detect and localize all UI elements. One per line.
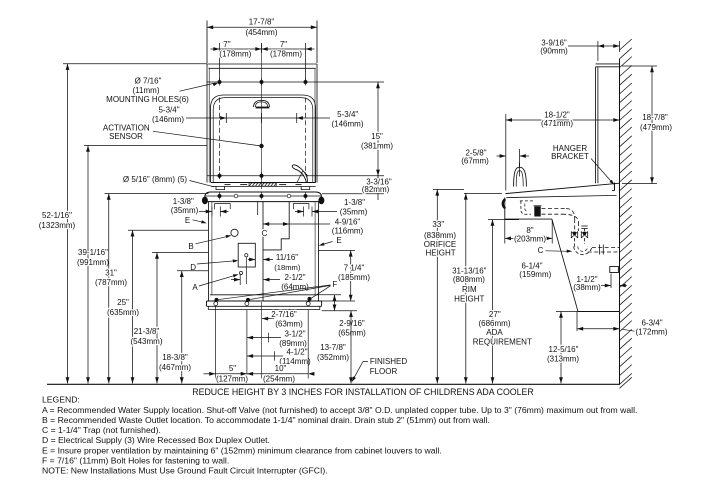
dim 1-3/8in (35mm) left	[211, 207, 213, 217]
svg-text:(381mm): (381mm)	[361, 141, 393, 150]
svg-text:E = Insure proper ventilation: E = Insure proper ventilation by maintai…	[42, 445, 442, 455]
front panel centerline	[261, 43, 263, 189]
basin end clips	[216, 186, 225, 189]
svg-text:(454mm): (454mm)	[245, 28, 277, 37]
svg-text:(18mm): (18mm)	[274, 263, 301, 272]
svg-text:(146mm): (146mm)	[152, 115, 184, 124]
svg-text:(35mm): (35mm)	[171, 206, 199, 215]
bolt holes F in flange	[214, 302, 218, 306]
svg-text:C = 1-1/4" Trap (not furnished: C = 1-1/4" Trap (not furnished).	[42, 425, 161, 435]
svg-text:(35mm): (35mm)	[340, 207, 368, 216]
svg-text:A = Recommended Water Supply l: A = Recommended Water Supply location. S…	[42, 405, 637, 415]
lower mounting hole row on shroud	[205, 195, 321, 197]
svg-text:18-7/8": 18-7/8"	[642, 113, 668, 122]
mid mounting hole row	[219, 172, 221, 179]
svg-text:(352mm): (352mm)	[317, 353, 349, 362]
basin grate band	[211, 182, 316, 184]
dim 18-7/8in (479mm)	[622, 65, 657, 67]
cabinet bottom flange	[207, 300, 322, 302]
svg-text:E: E	[336, 236, 341, 245]
svg-text:(838mm): (838mm)	[424, 231, 456, 240]
dim 5-3/4in (146mm) both sides of center	[186, 117, 297, 119]
svg-text:(471mm): (471mm)	[541, 119, 573, 128]
wall line	[619, 59, 621, 384]
dim 18-3/8" (467mm) vertical	[177, 270, 209, 272]
cabinet top shroud	[205, 192, 322, 202]
svg-text:A: A	[192, 283, 198, 292]
side view slanted lower front	[552, 219, 578, 311]
svg-text:ACTIVATION: ACTIVATION	[103, 123, 150, 132]
svg-text:Ø 5/16" (8mm) (5): Ø 5/16" (8mm) (5)	[123, 175, 188, 184]
svg-text:(467mm): (467mm)	[159, 363, 191, 372]
leader from mounting holes label to top-left hole	[180, 83, 216, 91]
svg-text:C: C	[538, 246, 544, 255]
cabinet body sides	[208, 202, 210, 301]
dim 15in (381mm) right side	[377, 82, 379, 176]
svg-text:(203mm): (203mm)	[514, 234, 546, 243]
svg-text:(127mm): (127mm)	[216, 375, 248, 384]
svg-text:B = Recommended Waste Outlet l: B = Recommended Waste Outlet location. T…	[42, 415, 490, 425]
bolt hole extension lines down to 5in/10in dims	[214, 307, 216, 379]
svg-text:FINISHED: FINISHED	[370, 357, 408, 366]
svg-text:F: F	[332, 280, 337, 289]
side view deck top slant	[506, 183, 620, 193]
shroud hole circles	[234, 194, 238, 198]
stepped interior panel line	[263, 202, 289, 250]
svg-text:15": 15"	[371, 132, 383, 141]
svg-text:3-1/2": 3-1/2"	[284, 330, 305, 339]
right bumper	[318, 197, 324, 205]
svg-text:(82mm): (82mm)	[362, 185, 390, 194]
bubbler side view	[514, 167, 527, 186]
dim 5in (127mm) and 10in (254mm) row	[204, 373, 216, 375]
dim 13-7/8in (352mm)	[350, 311, 352, 384]
svg-text:ORIFICE: ORIFICE	[424, 240, 456, 249]
dim 8in (203mm)	[504, 219, 506, 243]
svg-text:2-9/16": 2-9/16"	[339, 319, 365, 328]
dim 1-1/2in (38mm)	[610, 274, 612, 289]
dim 7in (178mm) left and right lines	[219, 43, 221, 82]
label D leader	[197, 261, 237, 264]
svg-text:(178mm): (178mm)	[270, 50, 302, 59]
svg-text:(313mm): (313mm)	[547, 355, 579, 364]
svg-text:7 1/4": 7 1/4"	[344, 264, 365, 273]
svg-text:6-3/4": 6-3/4"	[641, 319, 662, 328]
grate recess rounded rectangle inner	[213, 98, 313, 183]
electrical box D dashed rectangle	[238, 243, 255, 267]
svg-text:(991mm): (991mm)	[77, 258, 109, 267]
left bumper	[202, 197, 208, 205]
side view front face	[504, 198, 506, 220]
svg-text:2-7/16": 2-7/16"	[271, 310, 297, 319]
side view bottom line	[578, 311, 620, 313]
bubbler dome front view	[254, 100, 270, 107]
svg-text:13-7/8": 13-7/8"	[320, 343, 346, 352]
dim 3-3/16in (82mm)	[207, 175, 384, 177]
svg-text:18-3/8": 18-3/8"	[162, 353, 188, 362]
svg-text:(146mm): (146mm)	[331, 119, 363, 128]
svg-text:RIM: RIM	[462, 285, 477, 294]
svg-text:Ø 7/16": Ø 7/16"	[135, 77, 162, 86]
svg-text:REQUIREMENT: REQUIREMENT	[473, 337, 532, 346]
dim 2-1/2in (64mm)	[239, 274, 241, 286]
dim 2-9/16in (65mm)	[319, 294, 342, 296]
dim 18-1/2in (471mm)	[506, 119, 620, 121]
drain fitting B side view	[535, 207, 540, 211]
svg-text:HEIGHT: HEIGHT	[425, 249, 455, 258]
svg-text:(65mm): (65mm)	[338, 329, 366, 338]
hanger bracket at wall	[614, 183, 616, 191]
svg-text:E: E	[185, 216, 190, 225]
svg-text:21-3/8": 21-3/8"	[134, 327, 160, 336]
svg-text:ADA: ADA	[486, 328, 503, 337]
dashed mounting-hole centerlines in recess	[219, 98, 221, 182]
svg-text:2-1/2": 2-1/2"	[284, 273, 305, 282]
svg-text:MOUNTING HOLES(6): MOUNTING HOLES(6)	[106, 95, 189, 104]
floor line	[47, 383, 620, 385]
basin band slot marks	[240, 184, 247, 186]
bubbler push-bar flag front view	[292, 165, 307, 183]
wall hatching	[620, 39, 632, 50]
label B leader	[196, 236, 231, 244]
basin grate hatch marks center	[249, 183, 252, 186]
svg-text:(808mm): (808mm)	[453, 275, 485, 284]
svg-text:LEGEND:: LEGEND:	[42, 395, 80, 405]
svg-text:39-1/16": 39-1/16"	[78, 248, 108, 257]
dim 4-9/16in (116mm)	[263, 223, 330, 225]
svg-text:31-13/16": 31-13/16"	[452, 266, 487, 275]
water supply hole A	[239, 271, 242, 274]
front view: top width dimension 17-7/8in extension lines	[206, 21, 208, 64]
svg-text:REDUCE HEIGHT BY 3 INCHES FOR: REDUCE HEIGHT BY 3 INCHES FOR INSTALLATI…	[192, 387, 534, 397]
svg-text:D = Electrical Supply (3) Wire: D = Electrical Supply (3) Wire Recessed …	[42, 435, 270, 445]
svg-text:(543mm): (543mm)	[130, 337, 162, 346]
svg-text:SENSOR: SENSOR	[109, 132, 143, 141]
svg-text:5-3/4": 5-3/4"	[158, 106, 179, 115]
louver slots below shroud	[215, 204, 231, 210]
svg-text:12-5/16": 12-5/16"	[549, 345, 579, 354]
waste trap dashed under basin	[520, 201, 535, 214]
svg-text:1-3/8": 1-3/8"	[173, 197, 194, 206]
svg-text:7": 7"	[223, 40, 230, 49]
svg-text:(172mm): (172mm)	[635, 327, 667, 336]
svg-text:(89mm): (89mm)	[279, 339, 307, 348]
svg-text:31": 31"	[105, 269, 117, 278]
svg-text:F = 7/16" (11mm) Bolt Holes fo: F = 7/16" (11mm) Bolt Holes for fastenin…	[42, 455, 229, 465]
pipe union flanges	[599, 245, 601, 255]
svg-text:(686mm): (686mm)	[478, 319, 510, 328]
svg-text:6-1/4": 6-1/4"	[521, 261, 542, 270]
side view basin underside	[505, 218, 552, 220]
svg-text:(38mm): (38mm)	[573, 283, 601, 292]
svg-text:(90mm): (90mm)	[540, 46, 568, 55]
svg-text:(254mm): (254mm)	[263, 375, 295, 384]
svg-text:B: B	[188, 242, 193, 251]
svg-text:(64mm): (64mm)	[281, 283, 309, 292]
dim 21-3/8" (543mm) vertical	[152, 252, 209, 254]
supply pipe dashed runs	[542, 208, 567, 210]
svg-text:HEIGHT: HEIGHT	[454, 294, 484, 303]
svg-text:(178mm): (178mm)	[219, 50, 251, 59]
svg-text:(479mm): (479mm)	[640, 123, 672, 132]
svg-text:52-1/16": 52-1/16"	[42, 211, 72, 220]
waste outlet circle B	[231, 229, 238, 236]
svg-text:17-7/8": 17-7/8"	[249, 18, 275, 27]
dim 11/16in (18mm)	[248, 259, 255, 261]
mounting holes top row	[219, 79, 221, 86]
svg-text:BRACKET: BRACKET	[551, 152, 589, 161]
drain stub line below basin	[257, 202, 259, 215]
dim 7-1/4in (185mm) right of cabinet	[319, 249, 356, 251]
svg-text:4-1/2": 4-1/2"	[286, 348, 307, 357]
svg-text:(1323mm): (1323mm)	[39, 221, 76, 230]
dim 25" (635mm) vertical	[128, 229, 209, 231]
svg-text:11/16": 11/16"	[276, 253, 298, 262]
svg-text:7": 7"	[280, 40, 287, 49]
dim 3-1/2in (89mm)	[247, 337, 281, 339]
svg-text:27": 27"	[489, 310, 501, 319]
svg-text:5-3/4": 5-3/4"	[337, 110, 358, 119]
svg-text:33": 33"	[432, 220, 444, 229]
waste pipe to wall dashed	[592, 247, 620, 249]
svg-text:(116mm): (116mm)	[332, 227, 364, 236]
dim 17-7/8in (454mm) line	[207, 26, 317, 28]
dim 1-3/8in (35mm) right	[303, 207, 305, 217]
svg-text:(11mm): (11mm)	[133, 86, 160, 95]
svg-text:(159mm): (159mm)	[519, 270, 551, 279]
side view back panel	[595, 67, 597, 183]
svg-text:C: C	[262, 229, 268, 238]
electrical outlet box side view	[610, 267, 619, 273]
p-trap dashed	[574, 247, 592, 255]
dim 2-7/16in (63mm)	[262, 318, 274, 320]
svg-text:NOTE: New Installations Must U: NOTE: New Installations Must Use Ground …	[42, 466, 328, 476]
svg-text:(635mm): (635mm)	[107, 308, 139, 317]
dim 52-1/16" (1323mm) vertical	[63, 63, 207, 65]
grate recess rounded rectangle outer	[211, 95, 316, 183]
svg-text:10": 10"	[275, 364, 287, 373]
cooler back panel outline	[207, 63, 317, 65]
svg-text:(67mm): (67mm)	[461, 156, 489, 165]
svg-text:25": 25"	[117, 298, 129, 307]
svg-text:(63mm): (63mm)	[275, 319, 303, 328]
dim 2-5/8in (67mm)	[497, 155, 506, 157]
label A leader	[199, 275, 237, 286]
dim 31-13/16in rim height	[464, 192, 502, 194]
dim 33in orifice height	[433, 188, 464, 190]
svg-text:1-3/8": 1-3/8"	[344, 198, 365, 207]
dim 27in ADA requirement	[488, 219, 519, 221]
pipes below valves dashed	[574, 238, 576, 247]
dim 12-5/16in (313mm)	[556, 311, 578, 313]
dim 4-1/2in (114mm)	[247, 355, 283, 357]
svg-text:(185mm): (185mm)	[338, 273, 370, 282]
shut-off valves	[570, 232, 572, 239]
cabinet louver bottom line	[210, 294, 319, 296]
svg-text:5": 5"	[229, 364, 236, 373]
svg-text:4-9/16": 4-9/16"	[335, 217, 361, 226]
mounting hole row line extended right for 15in dim	[207, 81, 384, 83]
side view front bumper	[503, 199, 506, 208]
dim 39-1/16" (991mm) vertical	[84, 145, 207, 147]
svg-text:(787mm): (787mm)	[95, 278, 127, 287]
svg-text:FLOOR: FLOOR	[370, 367, 398, 376]
dim 3-9/16in (90mm)	[597, 41, 599, 61]
dim 6-3/4in (172mm)	[576, 312, 578, 332]
dim 31" (787mm) vertical	[105, 193, 209, 195]
